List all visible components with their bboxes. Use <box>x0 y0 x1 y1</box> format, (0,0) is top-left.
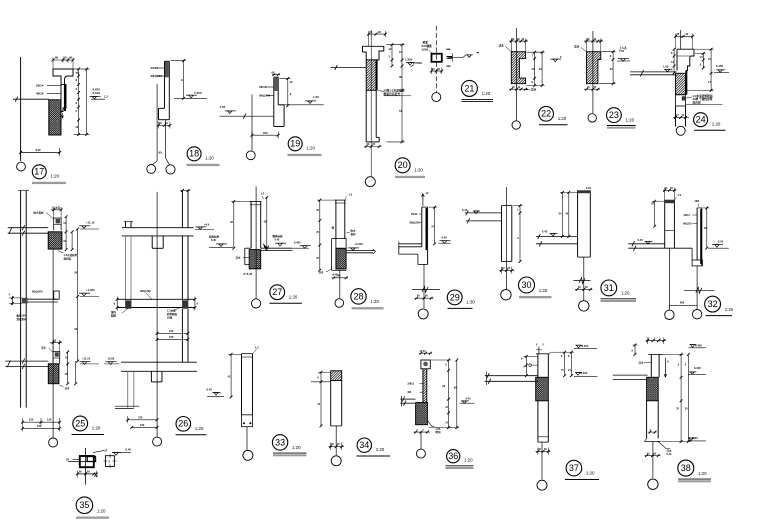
svg-text:30: 30 <box>521 280 531 290</box>
svg-text:泛水: 泛水 <box>531 88 537 92</box>
detail 26 left column stub <box>125 222 127 228</box>
svg-text:1:20: 1:20 <box>464 458 473 463</box>
detail 37 pier hatch <box>536 377 549 401</box>
detail 17 label <box>32 165 46 179</box>
detail 23 bottom dimension <box>584 88 600 90</box>
detail 32 left center axis <box>668 248 670 310</box>
detail 26 bottom dimensions <box>128 419 157 421</box>
detail 20 right dimension chain <box>401 45 403 142</box>
svg-text:1:20: 1:20 <box>92 426 101 431</box>
svg-text:1:30: 1:30 <box>466 300 475 305</box>
detail 18 wall step <box>159 107 165 109</box>
svg-text:2.20: 2.20 <box>586 186 592 190</box>
svg-text:+1.500: +1.500 <box>86 288 95 292</box>
detail 22 right dimension outer <box>541 52 543 85</box>
svg-text:2Φ12: 2Φ12 <box>408 381 415 385</box>
detail 17 beam ledge <box>53 69 73 85</box>
detail 27 label <box>270 285 285 300</box>
svg-text:1:20: 1:20 <box>414 168 423 173</box>
detail 17 grid bubble <box>17 162 26 171</box>
svg-text:240: 240 <box>94 475 99 478</box>
svg-text:70: 70 <box>76 71 80 75</box>
detail 37 left slab <box>485 375 538 377</box>
detail 29 wall <box>421 207 423 247</box>
detail 37 parapet wall <box>537 354 539 378</box>
detail 28 left long dimension <box>319 200 321 270</box>
svg-text:6.40: 6.40 <box>466 396 472 400</box>
svg-text:38: 38 <box>681 463 691 473</box>
detail 30 left slab <box>465 212 502 214</box>
svg-text:1:20: 1:20 <box>698 471 707 476</box>
svg-text:@500: @500 <box>422 48 429 52</box>
detail 18 left extension line <box>156 84 158 161</box>
detail 29 wall step <box>398 247 400 254</box>
svg-text:Φ8@200: Φ8@200 <box>410 222 421 225</box>
svg-text:1:20: 1:20 <box>539 288 548 293</box>
detail 38 wall bottom <box>644 441 660 443</box>
detail 21 right elevation <box>463 55 473 58</box>
svg-text:1:20: 1:20 <box>289 294 298 299</box>
detail 18 parapet wall <box>164 61 166 108</box>
svg-text:240: 240 <box>37 424 42 428</box>
detail 36 pier hatch <box>416 403 428 425</box>
detail 26 left column lower <box>127 371 129 407</box>
detail 22 axis line <box>516 28 518 121</box>
svg-text:36: 36 <box>448 451 458 461</box>
detail 33 grid bubble <box>243 450 253 460</box>
detail 25 lower slab <box>5 360 48 362</box>
detail 35 bottom dimension <box>77 473 96 475</box>
svg-text:240: 240 <box>337 275 342 278</box>
detail 38 left leader <box>644 362 651 364</box>
detail 27 column <box>250 202 252 249</box>
detail 22 right dimension inner <box>534 52 536 85</box>
svg-text:Φ8@200: Φ8@200 <box>140 289 151 293</box>
svg-text:2Φ14: 2Φ14 <box>36 84 44 88</box>
svg-text:泛水: 泛水 <box>319 270 325 274</box>
detail 26 label <box>176 417 191 432</box>
detail 28 pier hatch <box>336 248 346 269</box>
svg-text:1.05: 1.05 <box>663 64 669 68</box>
detail 32 break line <box>684 289 714 291</box>
svg-text:Φ8: Φ8 <box>408 390 412 394</box>
svg-text:6.45: 6.45 <box>275 238 280 241</box>
svg-text:1.0500: 1.0500 <box>413 61 423 65</box>
detail 38 center axis <box>652 442 654 479</box>
detail 25 lower hatch leader <box>60 385 64 387</box>
detail 25 middle slab <box>22 298 58 300</box>
detail 36 center axis <box>420 432 422 449</box>
svg-text:1.05: 1.05 <box>220 105 226 109</box>
detail 34 center axis <box>335 426 337 455</box>
detail 36 hatch tail leader <box>427 420 434 426</box>
detail 33 bottom block <box>242 415 253 427</box>
detail 30 grid bubble <box>501 290 511 300</box>
detail 32 label <box>705 296 721 312</box>
detail 38 label <box>678 460 694 476</box>
detail 35 horizontal centerline <box>68 461 96 463</box>
detail 18 rebar leader 1 <box>157 67 165 69</box>
detail 25 middle slab dim <box>11 296 13 305</box>
detail 37 bottom dimension <box>536 451 551 453</box>
detail 37 label <box>566 460 582 476</box>
detail 17 pier hatch <box>49 100 61 135</box>
detail 32 top dimension <box>663 189 677 191</box>
detail 26 top slab <box>122 227 194 229</box>
detail 35 left leader <box>73 459 80 461</box>
svg-text:P=6.45: P=6.45 <box>244 272 253 276</box>
detail 25 top slab <box>8 227 49 229</box>
svg-text:6.20: 6.20 <box>667 453 672 456</box>
detail 35 vertical centerline <box>85 448 87 485</box>
svg-text:19: 19 <box>290 139 300 149</box>
svg-text:2Φ12: 2Φ12 <box>684 214 691 217</box>
detail 28 step ledge <box>332 238 336 240</box>
svg-text:1:20: 1:20 <box>306 146 315 151</box>
detail 37 center axis <box>541 442 543 480</box>
detail 25 upper hatch pier <box>48 232 62 249</box>
detail 24 bottom dimension <box>673 116 689 118</box>
detail 35 label <box>76 497 93 514</box>
detail 18 stem to left bubble <box>153 161 158 165</box>
detail 26 top beam <box>151 236 153 248</box>
detail 23 grid bubble <box>588 114 596 122</box>
svg-text:1:2水泥: 1:2水泥 <box>167 309 176 313</box>
detail 21 axis line <box>435 26 437 93</box>
svg-text:1:20: 1:20 <box>205 156 214 161</box>
detail 21 bottom dimension <box>431 70 442 72</box>
detail 19 rebar leader 2 <box>266 95 274 97</box>
svg-text:6.450: 6.450 <box>695 343 702 347</box>
detail 18 label <box>187 147 201 161</box>
detail 27 hatch leader <box>243 257 249 259</box>
detail 28 column <box>335 200 337 239</box>
svg-text:6.450: 6.450 <box>716 64 723 68</box>
svg-text:40: 40 <box>69 56 73 60</box>
detail 19 grid line <box>251 94 253 150</box>
detail 28 upper box <box>336 239 346 249</box>
detail 17 top dimension <box>53 59 73 61</box>
detail 33 wall <box>241 354 243 415</box>
detail 30 right dimension <box>519 206 521 262</box>
detail 30 bottom dimension <box>499 269 515 271</box>
detail 25 left wall <box>20 191 22 408</box>
detail 32 left slab <box>628 243 665 245</box>
svg-text:6.400: 6.400 <box>294 240 301 244</box>
detail 31 center axis <box>583 257 585 300</box>
detail 26 lower slab <box>121 361 197 363</box>
svg-text:结构标高: 结构标高 <box>208 235 220 239</box>
svg-text:泛水: 泛水 <box>41 346 47 350</box>
detail 31 break line <box>574 280 591 282</box>
detail 26 grid bubble <box>153 437 162 446</box>
detail 38 right dimension inner <box>680 354 682 441</box>
svg-text:50: 50 <box>64 56 68 60</box>
svg-text:35: 35 <box>79 500 89 510</box>
detail 32 right thin wall <box>696 208 698 260</box>
detail 19 top dimension <box>272 74 280 76</box>
svg-text:6.40: 6.40 <box>126 447 132 451</box>
svg-text:1:20: 1:20 <box>292 445 301 450</box>
detail 20 beam ledge <box>363 46 384 60</box>
detail 31 bottom dimension <box>575 288 593 290</box>
detail 24 left slab <box>630 71 676 73</box>
svg-text:2Φ6: 2Φ6 <box>695 200 700 203</box>
detail 32 thin wall leaders <box>693 214 698 216</box>
detail 34 grid bubble <box>331 456 341 466</box>
detail 17 grid line <box>20 57 22 161</box>
detail 18 right grid bubble <box>166 165 175 174</box>
detail 38 right arrow <box>664 358 666 377</box>
detail 28 grid bubble <box>335 299 344 308</box>
detail 27 grid bubble <box>252 299 261 308</box>
detail 32 connecting line <box>669 305 697 307</box>
detail 19 wall step <box>278 104 284 106</box>
svg-text:34: 34 <box>359 440 369 450</box>
svg-text:240: 240 <box>169 329 174 333</box>
svg-text:建筑标高: 建筑标高 <box>272 234 284 238</box>
detail 25 upper hatch leader <box>58 251 63 254</box>
detail 38 wall below <box>646 401 648 439</box>
detail 25 label <box>73 416 88 431</box>
detail 25 top curb dimension <box>51 209 61 211</box>
svg-text:防水: 防水 <box>351 228 357 232</box>
detail 24 axis line <box>680 30 682 49</box>
detail 20 top dimension <box>369 33 386 35</box>
detail 29 left slab <box>399 243 422 245</box>
detail 17 floor line <box>13 98 49 100</box>
detail 30 center axis <box>506 187 508 290</box>
detail 37 wall below <box>537 401 539 442</box>
detail 22 bottom dimension <box>509 88 528 90</box>
svg-text:7.450: 7.450 <box>194 91 202 95</box>
svg-text:1:20: 1:20 <box>725 307 734 312</box>
svg-text:梁内: 梁内 <box>110 310 117 314</box>
detail 25 lower curb dimension <box>50 342 62 344</box>
svg-text:结合层: 结合层 <box>693 101 701 105</box>
detail 24 wall lower <box>676 95 686 106</box>
detail 37 top tick <box>538 347 540 354</box>
detail 26 mid slab <box>118 298 195 300</box>
svg-text:10.95: 10.95 <box>108 357 115 361</box>
detail 38 top dimension <box>646 340 667 342</box>
detail 26 left column below <box>125 236 127 301</box>
detail 24 grid bubble <box>676 126 685 135</box>
svg-text:泛水: 泛水 <box>236 256 242 260</box>
detail 20 label <box>395 158 410 173</box>
detail 31 left dimensions <box>561 192 563 236</box>
svg-text:粉面压实赶光: 粉面压实赶光 <box>384 92 401 96</box>
detail 26 right column mid <box>181 309 183 362</box>
svg-text:1:20: 1:20 <box>195 426 204 431</box>
detail 19 grid bubble <box>246 151 255 160</box>
detail 31 left slab <box>536 236 578 238</box>
detail 38 right dimension outer <box>687 354 689 441</box>
svg-text:370: 370 <box>169 335 174 339</box>
svg-text:1:20: 1:20 <box>621 291 630 296</box>
detail 25 lower curb profile <box>53 352 60 364</box>
svg-text:1:20: 1:20 <box>97 508 106 513</box>
detail 27 pier hatch <box>249 250 261 269</box>
svg-text:1:2: 1:2 <box>349 192 353 196</box>
detail 20 inner dimension <box>391 45 393 66</box>
detail 26 right column upper <box>181 191 183 228</box>
detail 17 right dimension chain <box>78 69 80 135</box>
svg-text:6.400: 6.400 <box>694 366 701 370</box>
detail 27 left dimension <box>233 202 235 249</box>
detail 35 inner box <box>87 457 95 462</box>
detail 24 right dimension <box>710 49 712 90</box>
svg-text:+6.4: +6.4 <box>204 223 210 227</box>
svg-text:1:2: 1:2 <box>261 193 265 196</box>
svg-text:120: 120 <box>47 418 52 422</box>
svg-text:Φ8@200: Φ8@200 <box>151 74 163 78</box>
svg-text:1:20: 1:20 <box>376 447 385 452</box>
svg-text:1:20: 1:20 <box>482 91 491 96</box>
detail 26 left step lines <box>115 405 139 407</box>
svg-text:泛水: 泛水 <box>499 43 505 47</box>
detail 18 elevation marker <box>186 94 197 96</box>
detail 19 bottom dimension <box>252 134 278 136</box>
detail 26 center axis <box>156 192 158 437</box>
detail 22 top dimension <box>509 40 528 42</box>
detail 32 wall bottom box <box>691 248 693 260</box>
detail 26 mid beam blocks <box>125 300 131 308</box>
detail 25 lower right dims <box>67 352 69 384</box>
detail 28 label <box>351 289 366 304</box>
detail 20 bottom dimension <box>364 146 382 148</box>
detail 34 left dimension <box>320 372 322 426</box>
svg-text:21: 21 <box>464 83 474 93</box>
svg-text:6.510: 6.510 <box>93 91 101 95</box>
detail 34 hatched cap <box>331 371 342 381</box>
detail 36 right dimension inner <box>448 360 450 428</box>
svg-text:1:20: 1:20 <box>51 174 60 179</box>
detail 26 left dim <box>116 297 118 311</box>
detail 38 parapet wall <box>648 353 662 355</box>
svg-text:27: 27 <box>272 287 282 297</box>
svg-text:防水卷材: 防水卷材 <box>34 210 45 214</box>
svg-text:22: 22 <box>541 109 551 119</box>
svg-text:1:20: 1:20 <box>626 117 635 122</box>
detail 23 top dimension <box>584 40 603 42</box>
detail 18 left grid bubble <box>147 165 156 174</box>
detail 20 grid bubble <box>365 177 375 187</box>
detail 36 grid bubble <box>416 449 425 458</box>
detail 20 wall below <box>365 90 367 142</box>
detail 19 right dimension <box>287 78 289 105</box>
detail 36 label <box>447 450 460 463</box>
detail 23 right dimension <box>612 52 614 84</box>
detail 28 bottom dimension <box>332 277 349 279</box>
detail 34 bottom dimension <box>329 446 345 448</box>
detail 22 label <box>539 106 554 121</box>
svg-text:35: 35 <box>66 458 69 462</box>
detail 38 inner dim <box>649 431 657 433</box>
detail 18 right dimension <box>183 61 185 99</box>
svg-text:6.45: 6.45 <box>462 208 468 212</box>
detail 37 G mark <box>529 364 532 367</box>
detail 38 pier hatch <box>647 377 659 401</box>
detail 25 lower hatch pier <box>48 364 59 384</box>
detail 23 label <box>607 108 622 123</box>
svg-text:24: 24 <box>696 115 706 125</box>
svg-text:17: 17 <box>34 167 44 177</box>
detail 29 grid bubble <box>418 309 428 319</box>
detail 29 right dimension <box>434 207 436 244</box>
detail 24 inner right dimension <box>702 53 704 68</box>
detail 36 wall leaders <box>420 383 423 385</box>
detail 25 top curb profile <box>54 218 61 230</box>
svg-text:预埋: 预埋 <box>423 41 429 45</box>
svg-text:卷材: 卷材 <box>350 232 357 236</box>
svg-text:泛水: 泛水 <box>574 44 580 48</box>
detail 21 grid bubble <box>432 93 441 102</box>
detail 24 mortar leader <box>686 97 692 98</box>
detail 25 center axis <box>52 249 54 437</box>
svg-text:泛水: 泛水 <box>639 361 645 365</box>
detail 20 wall axis <box>370 30 372 177</box>
svg-text:90: 90 <box>159 151 163 155</box>
detail 31 wall <box>577 190 579 257</box>
detail 26 top slab elevation <box>195 226 206 228</box>
detail 32 left column <box>664 200 666 249</box>
detail 25 overall dimension <box>77 229 79 361</box>
detail 24 label <box>694 113 708 127</box>
svg-text:30: 30 <box>399 75 403 79</box>
svg-text:120: 120 <box>29 418 34 422</box>
svg-text:泛水: 泛水 <box>65 386 71 390</box>
detail 22 grid bubble <box>512 121 520 129</box>
svg-text:28: 28 <box>353 291 363 301</box>
detail 31 grid bubble <box>579 301 589 311</box>
svg-text:配筋: 配筋 <box>111 314 117 318</box>
detail 24 left dimension <box>673 49 675 73</box>
detail 19 parapet wall <box>273 77 275 126</box>
svg-text:4Φ16: 4Φ16 <box>36 92 44 96</box>
svg-text:12: 12 <box>75 125 79 129</box>
svg-text:Φ8@200: Φ8@200 <box>259 94 271 98</box>
detail 17 beam web <box>61 85 66 112</box>
detail 31 label <box>601 280 617 296</box>
detail 26 right column below <box>181 236 183 301</box>
svg-text:240: 240 <box>140 423 145 427</box>
svg-text:+6.450: +6.450 <box>355 242 364 246</box>
detail 26 lower beam <box>150 371 152 382</box>
svg-text:51: 51 <box>399 109 403 113</box>
detail 25 bottom dimensions <box>23 421 60 423</box>
detail 24 top dimension <box>676 35 693 37</box>
detail 36 top dimension <box>419 352 432 354</box>
svg-text:Φ8@200: Φ8@200 <box>32 290 43 294</box>
svg-text:1:2: 1:2 <box>255 346 259 350</box>
detail 20 coping hatch <box>366 60 376 90</box>
svg-text:240: 240 <box>263 131 268 135</box>
detail 21 label <box>461 80 477 96</box>
svg-text:+11.10: +11.10 <box>82 357 91 361</box>
detail 32 right dimension <box>706 208 708 248</box>
detail 38 left dimension <box>634 345 636 354</box>
svg-text:2Φ12: 2Φ12 <box>259 85 267 89</box>
svg-text:37: 37 <box>569 463 579 473</box>
detail 20 left floor line <box>331 67 367 69</box>
svg-text:Φ10钢筋: Φ10钢筋 <box>422 44 433 48</box>
detail 32 right grid bubble <box>692 310 701 319</box>
detail 33 label <box>272 435 287 450</box>
detail 22 elevation marker <box>550 58 561 60</box>
svg-text:20厚: 20厚 <box>167 315 173 319</box>
detail 29 label <box>447 290 462 305</box>
